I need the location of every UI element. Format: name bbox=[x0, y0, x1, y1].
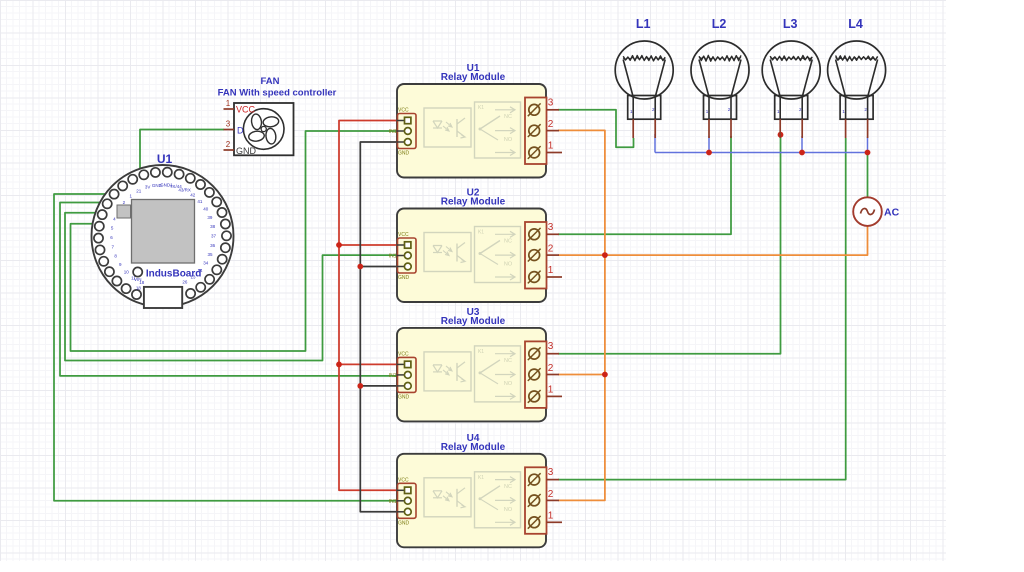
svg-text:VCC: VCC bbox=[398, 232, 409, 238]
wire L1 pin2 drop (blue) bbox=[654, 134, 656, 153]
svg-text:K1: K1 bbox=[478, 105, 484, 111]
lamp L2 bbox=[691, 41, 749, 138]
relay module U2 bbox=[389, 209, 562, 303]
svg-text:2: 2 bbox=[548, 119, 554, 130]
svg-text:10: 10 bbox=[124, 269, 130, 274]
relay module U4 bbox=[389, 454, 562, 548]
svg-text:L2: L2 bbox=[712, 17, 727, 31]
svg-text:NO: NO bbox=[504, 262, 513, 268]
svg-text:K1: K1 bbox=[478, 349, 484, 355]
AC source bbox=[853, 197, 882, 226]
wire AC to lamp bus (green) bbox=[867, 153, 869, 198]
svg-text:VCC: VCC bbox=[398, 477, 409, 483]
svg-text:NC: NC bbox=[504, 239, 512, 245]
svg-text:D: D bbox=[237, 126, 244, 136]
svg-text:38: 38 bbox=[210, 224, 216, 229]
wire VCC branch to U2 (red) bbox=[339, 244, 398, 246]
junction L3 pin1 bbox=[778, 132, 784, 138]
svg-text:26: 26 bbox=[182, 279, 188, 284]
svg-text:U1: U1 bbox=[157, 152, 173, 166]
wire U3 term2 branch (orange) bbox=[558, 374, 605, 376]
svg-text:36: 36 bbox=[210, 243, 216, 248]
svg-text:VCC: VCC bbox=[398, 108, 409, 114]
svg-text:NC: NC bbox=[504, 484, 512, 490]
wire U4 term3 to L4 (green) bbox=[558, 138, 846, 480]
junction bus-L4/AC bbox=[865, 150, 871, 156]
lamp L4 bbox=[828, 41, 886, 138]
svg-text:IN1: IN1 bbox=[389, 373, 397, 379]
wire board top pin to FAN D (green) bbox=[140, 130, 224, 175]
svg-text:Relay Module: Relay Module bbox=[441, 72, 506, 83]
svg-text:2: 2 bbox=[548, 244, 554, 255]
svg-text:L4: L4 bbox=[848, 17, 863, 31]
svg-text:3: 3 bbox=[548, 97, 554, 108]
svg-text:GND: GND bbox=[398, 275, 410, 281]
svg-text:42: 42 bbox=[190, 193, 196, 198]
junction VCC-U2 bbox=[336, 242, 342, 248]
wire U2 term2 to AC (orange) bbox=[558, 226, 868, 255]
svg-text:3: 3 bbox=[226, 120, 231, 129]
svg-text:39: 39 bbox=[207, 215, 213, 220]
wire L2 pin1 drop (blue) bbox=[708, 136, 710, 153]
relay module U3 bbox=[389, 328, 562, 422]
svg-text:IN1: IN1 bbox=[389, 499, 397, 505]
wire U1 term3 to L1 (green) bbox=[558, 110, 634, 148]
svg-text:3: 3 bbox=[548, 467, 554, 478]
svg-text:L3: L3 bbox=[783, 17, 798, 31]
svg-text:35: 35 bbox=[207, 252, 213, 257]
svg-text:K1: K1 bbox=[478, 475, 484, 481]
svg-text:GND: GND bbox=[398, 520, 410, 526]
svg-text:L1: L1 bbox=[636, 17, 651, 31]
svg-text:2: 2 bbox=[226, 140, 231, 149]
svg-text:GND: GND bbox=[398, 394, 410, 400]
svg-text:1: 1 bbox=[548, 141, 554, 152]
wire board pin6 to U1 IN (green) bbox=[71, 131, 399, 351]
relay module U1 bbox=[389, 84, 562, 178]
svg-text:VCC: VCC bbox=[236, 105, 256, 115]
svg-text:34: 34 bbox=[203, 261, 209, 266]
wire GND branch to U3 (black) bbox=[360, 385, 398, 387]
svg-text:NO: NO bbox=[504, 137, 513, 143]
wire U1 term2 trunk (orange) bbox=[558, 130, 605, 500]
svg-text:41: 41 bbox=[197, 199, 203, 204]
junction bus-L2 bbox=[706, 150, 712, 156]
svg-text:1: 1 bbox=[548, 510, 554, 521]
svg-text:37: 37 bbox=[211, 233, 217, 238]
wire VCC trunk (red) bbox=[339, 121, 398, 491]
wire L3 pin2 drop (blue) bbox=[801, 136, 803, 153]
lamp L1 bbox=[615, 41, 673, 138]
svg-text:NO: NO bbox=[504, 381, 513, 387]
wire GND branch to U2 (black) bbox=[360, 266, 398, 268]
svg-text:Relay Module: Relay Module bbox=[441, 442, 506, 453]
svg-text:18: 18 bbox=[136, 286, 142, 291]
svg-text:FAN: FAN bbox=[261, 76, 280, 87]
wire lamp bus (blue) bbox=[655, 152, 868, 154]
svg-text:3V: 3V bbox=[145, 185, 151, 190]
wire U3 term3 to L3 (green) bbox=[558, 133, 781, 354]
svg-text:Relay Module: Relay Module bbox=[441, 316, 506, 327]
lamp L3 bbox=[762, 41, 820, 138]
junction GND-U3 bbox=[357, 383, 363, 389]
svg-text:GND: GND bbox=[398, 151, 410, 157]
svg-text:K1: K1 bbox=[478, 230, 484, 236]
svg-text:1: 1 bbox=[548, 384, 554, 395]
wire VCC branch to U3 (red) bbox=[339, 363, 398, 365]
wire U2 term3 to L2 (green) bbox=[558, 136, 731, 234]
wire board pin3 to U4 IN (green) bbox=[54, 194, 398, 501]
svg-text:Relay Module: Relay Module bbox=[441, 197, 506, 208]
svg-text:40: 40 bbox=[203, 206, 209, 211]
svg-text:VIN: VIN bbox=[134, 277, 142, 282]
svg-text:3: 3 bbox=[548, 341, 554, 352]
svg-text:GND: GND bbox=[236, 146, 257, 156]
svg-text:43/RX: 43/RX bbox=[178, 188, 191, 193]
svg-text:2: 2 bbox=[548, 363, 554, 374]
svg-text:AC: AC bbox=[884, 207, 900, 219]
svg-text:21: 21 bbox=[136, 188, 142, 193]
wire GND trunk (black) bbox=[360, 142, 398, 512]
svg-text:IN1: IN1 bbox=[389, 254, 397, 260]
svg-text:IN1: IN1 bbox=[389, 129, 397, 135]
svg-text:FAN With speed controller: FAN With speed controller bbox=[218, 88, 337, 99]
svg-text:1: 1 bbox=[226, 99, 231, 108]
svg-text:IndusBoard: IndusBoard bbox=[146, 269, 202, 280]
fan FAN bbox=[224, 99, 294, 156]
junction orange-AC line bbox=[602, 252, 608, 258]
wire board pin5 to U2 IN (green) bbox=[65, 213, 398, 361]
svg-text:1: 1 bbox=[548, 265, 554, 276]
svg-text:NC: NC bbox=[504, 358, 512, 364]
IndusBoard module U1 bbox=[92, 165, 234, 308]
svg-text:3: 3 bbox=[548, 222, 554, 233]
svg-text:NO: NO bbox=[504, 507, 513, 513]
wire board pin4 to U3 IN (green) bbox=[60, 203, 398, 376]
wire L4 pin2 drop (blue) bbox=[867, 137, 869, 153]
svg-text:2: 2 bbox=[548, 489, 554, 500]
svg-text:NC: NC bbox=[504, 114, 512, 120]
junction orange-U3.2 bbox=[602, 372, 608, 378]
svg-text:VCC: VCC bbox=[398, 351, 409, 357]
junction VCC-U3 bbox=[336, 362, 342, 368]
junction bus-L3 bbox=[799, 150, 805, 156]
junction GND-U2 bbox=[357, 264, 363, 270]
